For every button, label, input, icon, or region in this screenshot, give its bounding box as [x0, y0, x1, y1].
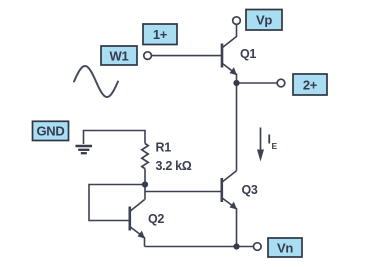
terminal circle 2+: [277, 79, 285, 87]
net label box 1+: [143, 24, 177, 45]
terminal circle Vp: [233, 17, 241, 25]
svg-text:Q2: Q2: [148, 212, 164, 226]
wire vertical rail Q1 emitter to Q3 collector: [236, 83, 238, 171]
svg-text:3.2 kΩ: 3.2 kΩ: [156, 159, 192, 173]
net label box Vp: [246, 10, 282, 31]
junction node Vn rail: [233, 243, 239, 249]
net label box GND: [33, 121, 69, 140]
label IE: [268, 133, 278, 151]
wire bottom rail to Vn terminal: [145, 246, 254, 248]
svg-text:Q1: Q1: [240, 47, 256, 61]
wire Q1 emitter to node 2+: [223, 64, 237, 83]
svg-text:Q3: Q3: [242, 183, 258, 197]
wire Q3 emitter down to bottom rail: [222, 198, 236, 246]
wire Q2 emitter down to bottom rail: [130, 227, 144, 247]
junction node 2+: [233, 80, 239, 86]
svg-text:GND: GND: [37, 124, 65, 139]
wire node to Q3 base: [145, 191, 221, 193]
transistor Q2 base bar: [129, 207, 132, 231]
sine wave source symbol W1: [74, 66, 118, 97]
transistor Q3 emitter arrow: [230, 202, 237, 210]
net label box Vn: [268, 238, 302, 257]
svg-text:Vp: Vp: [256, 13, 272, 28]
wire ground to R1 top: [84, 131, 146, 145]
wire Q1 collector to Vp terminal: [223, 24, 237, 47]
wire node R1 feedback loop to Q2 base: [89, 185, 145, 221]
terminal circle Vn: [253, 243, 261, 251]
transistor Q2 emitter arrow: [138, 231, 145, 239]
svg-text:E: E: [272, 141, 278, 151]
wire W1 terminal to Q1 base: [151, 55, 221, 57]
ground symbol: [76, 146, 93, 153]
wire Q2 collector diagonal: [130, 200, 144, 211]
svg-text:I: I: [268, 133, 271, 147]
terminal circle 1+: [144, 52, 152, 60]
transistor Q3 base bar: [221, 178, 224, 202]
svg-text:2+: 2+: [303, 77, 318, 92]
svg-text:R1: R1: [156, 141, 172, 155]
transistor Q1 base bar: [221, 44, 224, 68]
svg-text:W1: W1: [110, 48, 129, 63]
svg-text:1+: 1+: [153, 27, 168, 42]
transistor Q1 emitter arrow: [230, 67, 237, 75]
current arrow IE: [257, 128, 264, 162]
net label box 2+: [293, 74, 327, 95]
wire R1 bottom through node to Q2 collector: [144, 169, 146, 200]
wire node 2+ junction to 2+ terminal: [237, 82, 278, 84]
wire Q3 collector diagonal: [222, 171, 236, 182]
junction node R1 bottom: [142, 181, 148, 187]
net label box W1: [101, 46, 137, 65]
resistor R1 3.2 kOhm zigzag: [142, 144, 148, 169]
svg-text:Vn: Vn: [277, 240, 293, 255]
